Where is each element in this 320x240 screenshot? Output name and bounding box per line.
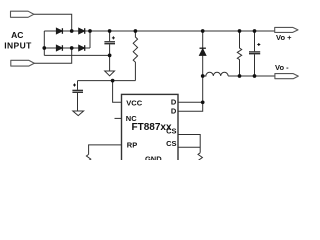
diode D3 bridge bottom-left <box>56 45 62 51</box>
wire switch node vertical <box>202 31 204 102</box>
resistor R2 RP set <box>86 154 90 162</box>
connector J2 AC input bottom <box>11 60 35 66</box>
svg-text:NC: NC <box>126 114 137 123</box>
node C1 top <box>108 29 112 33</box>
wire DC- to ground <box>44 54 109 56</box>
wire bridge right vertical <box>89 31 91 48</box>
svg-text:RP: RP <box>127 141 137 150</box>
node R3 bottom <box>238 74 242 78</box>
inductor L1 <box>203 72 228 76</box>
svg-text:INPUT: INPUT <box>4 40 32 50</box>
wire J2 to bridge bottom tap (crosses DC- line) <box>34 48 71 63</box>
svg-text:VCC: VCC <box>126 99 142 108</box>
connector J4 Vo- <box>275 74 298 79</box>
capacitor C3 output <box>249 31 260 76</box>
ground 2 <box>73 111 84 116</box>
resistor R4 current sense <box>198 153 202 161</box>
resistor R3 output load <box>237 31 241 76</box>
connector J3 Vo+ <box>275 27 298 32</box>
svg-text:CS: CS <box>166 127 176 136</box>
wire VCC drop <box>113 81 122 103</box>
svg-text:Vo -: Vo - <box>275 63 289 72</box>
node VCC tap <box>111 79 115 83</box>
svg-text:AC: AC <box>11 30 23 40</box>
pin CS wiring <box>178 135 200 153</box>
node C3 bottom <box>253 74 257 78</box>
node bridge right DC+ <box>88 29 92 33</box>
node bridge left DC- <box>42 46 46 50</box>
capacitor C1 bulk filter <box>104 31 115 55</box>
pin NC stub <box>115 117 122 119</box>
node diode top <box>201 29 205 33</box>
pin D stubs to switch node <box>178 101 203 103</box>
node bridge top tap <box>70 29 74 33</box>
diode D4 bridge bottom-right <box>79 45 85 51</box>
wire J1 to bridge top tap <box>34 14 72 31</box>
wire bridge left vertical <box>43 31 45 55</box>
capacitor C2 VCC filter <box>72 81 83 111</box>
ground 1 <box>105 55 115 75</box>
node R1 top <box>134 29 138 33</box>
wire bridge bottom branch <box>44 47 90 49</box>
svg-text:GND: GND <box>145 155 162 160</box>
svg-text:CS: CS <box>166 139 176 148</box>
node bridge bottom tap <box>70 46 74 50</box>
node inductor tap <box>201 74 205 78</box>
wire top rail DC+ <box>44 30 274 32</box>
node C3 top <box>253 29 257 33</box>
node D pins <box>201 100 205 104</box>
svg-text:D: D <box>171 107 177 116</box>
node C1 bottom ground <box>108 54 112 58</box>
wire VCC node <box>78 80 136 82</box>
svg-text:Vo +: Vo + <box>276 33 292 42</box>
svg-text:D: D <box>171 98 177 107</box>
diode D1 bridge top-left <box>56 28 62 34</box>
wire lower output rail <box>228 75 275 77</box>
diode D5 freewheel <box>200 48 206 55</box>
resistor R1 dropper <box>133 31 137 81</box>
connector J1 AC input top <box>11 11 34 17</box>
label AC INPUT <box>4 30 32 50</box>
IC U1 FT887xx <box>122 94 179 162</box>
diode D2 bridge top-right <box>79 28 85 34</box>
pin RP wire <box>89 145 122 155</box>
node R3 top <box>238 29 242 33</box>
